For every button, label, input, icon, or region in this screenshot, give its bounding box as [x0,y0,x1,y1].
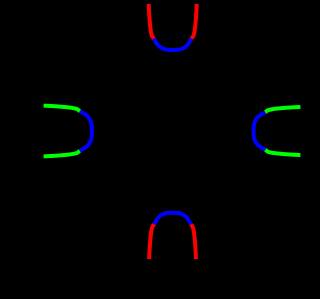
left level-curve branch: green arm A [44,151,80,157]
upper level-curve branch: red arm B [149,4,154,38]
lower level-curve branch: red arm B [149,224,154,259]
left level-curve branch: blue vertex arc [80,111,92,151]
upper level-curve branch: red arm A [191,4,196,38]
left level-curve branch: green arm B [44,106,80,112]
right level-curve branch: green arm A [265,150,300,155]
lower level-curve branch: blue vertex arc [154,213,190,225]
right level-curve branch: green arm B [265,107,300,112]
lower level-curve branch: red arm A [191,224,196,259]
right level-curve branch: blue vertex arc [254,112,266,149]
upper level-curve branch: blue vertex arc [154,39,191,50]
